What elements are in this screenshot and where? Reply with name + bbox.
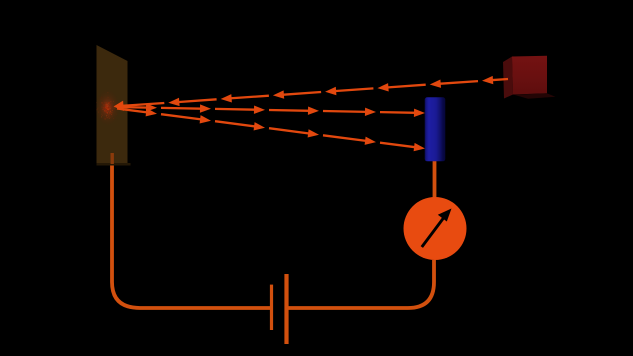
light source box: [503, 56, 556, 99]
ammeter body: [404, 197, 467, 260]
ammeter needle: [422, 209, 452, 248]
cathode plate: [97, 45, 131, 166]
wire ammeter top to anode: [433, 160, 437, 198]
wire from battery right to ammeter bottom: [289, 260, 435, 308]
battery long plate (positive): [284, 274, 288, 344]
light beam arrows (lamp to cathode): [114, 76, 509, 111]
anode plate: [425, 97, 446, 161]
photoemission glow on cathode: [95, 90, 120, 126]
battery short plate (negative): [270, 285, 273, 330]
electron beam upper (cathode to anode): [117, 103, 425, 117]
wire from cathode down-left to battery: [112, 162, 270, 308]
electron beam lower (cathode to anode): [117, 108, 425, 151]
